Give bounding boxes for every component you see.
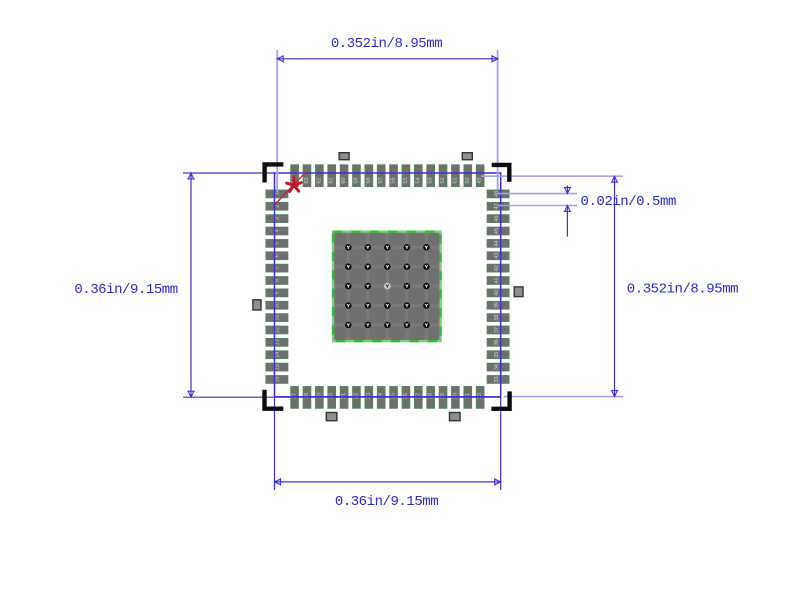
svg-text:24: 24 — [378, 393, 384, 399]
pad 19 (bottom) — [316, 387, 324, 409]
pad 3 (left) — [266, 215, 288, 223]
via 2,5 — [423, 263, 430, 270]
svg-text:0.352in/8.95mm: 0.352in/8.95mm — [331, 36, 442, 52]
package body outline (9.15mm square) — [275, 173, 501, 397]
svg-text:52: 52 — [440, 177, 446, 183]
orientation mark top-left — [339, 153, 349, 160]
left dimension extension line bottom — [183, 396, 501, 398]
svg-text:55: 55 — [403, 177, 409, 183]
svg-text:58: 58 — [366, 177, 372, 183]
pitch dimension extension line upper — [498, 193, 578, 195]
svg-text:31: 31 — [465, 393, 471, 399]
svg-text:61: 61 — [329, 177, 335, 183]
svg-text:0.36in/9.15mm: 0.36in/9.15mm — [335, 494, 438, 510]
via 3,3 — [384, 283, 391, 290]
bottom dimension line — [275, 478, 501, 485]
pad 54 (top) — [415, 165, 423, 187]
pad 34 (right) — [487, 363, 509, 371]
right dimension extension line top — [481, 175, 623, 177]
svg-text:6: 6 — [275, 254, 281, 257]
svg-text:62: 62 — [316, 177, 322, 183]
pad 1 (left) — [266, 190, 288, 198]
pad 31 (bottom) — [464, 387, 472, 409]
svg-text:3: 3 — [275, 217, 281, 220]
pad 46 (right) — [487, 215, 509, 223]
svg-text:19: 19 — [316, 393, 322, 399]
via 4,1 — [345, 302, 352, 309]
right dimension line — [611, 176, 618, 396]
pad 16 (left) — [266, 376, 288, 384]
pad 13 (left) — [266, 339, 288, 347]
svg-text:51: 51 — [452, 177, 458, 183]
pad 7 (left) — [266, 264, 288, 272]
pad 35 (right) — [487, 351, 509, 359]
svg-text:49: 49 — [477, 177, 483, 183]
pad 18 (bottom) — [303, 387, 311, 409]
svg-text:41: 41 — [494, 277, 500, 283]
svg-text:34: 34 — [494, 364, 500, 370]
silkscreen corner bracket bottom-left — [265, 390, 284, 409]
svg-text:5: 5 — [275, 242, 281, 245]
pad 21 (bottom) — [340, 387, 348, 409]
pad 64 (top) — [291, 165, 299, 187]
pad 59 (top) — [353, 165, 361, 187]
svg-text:22: 22 — [353, 393, 359, 399]
pad 28 (bottom) — [427, 387, 435, 409]
pad 23 (bottom) — [365, 387, 373, 409]
svg-text:53: 53 — [428, 177, 434, 183]
pad 5 (left) — [266, 240, 288, 248]
svg-text:0.36in/9.15mm: 0.36in/9.15mm — [74, 282, 177, 298]
pad 27 (bottom) — [415, 387, 423, 409]
pad 17 (bottom) — [291, 387, 299, 409]
svg-text:56: 56 — [391, 177, 397, 183]
svg-text:29: 29 — [440, 393, 446, 399]
pad 11 (left) — [266, 314, 288, 322]
svg-text:0.02in/0.5mm: 0.02in/0.5mm — [581, 194, 676, 210]
pad 39 (right) — [487, 301, 509, 309]
svg-text:46: 46 — [494, 216, 500, 222]
orientation mark top-right — [462, 153, 472, 160]
svg-text:15: 15 — [275, 364, 281, 370]
pitch dimension arrows — [564, 186, 571, 237]
svg-text:32: 32 — [477, 393, 483, 399]
pitch dimension extension line lower — [498, 205, 578, 207]
svg-text:37: 37 — [494, 327, 500, 333]
via 5,4 — [404, 322, 411, 329]
bottom dimension extension line right — [500, 397, 502, 490]
svg-text:20: 20 — [329, 393, 335, 399]
via 2,4 — [404, 263, 411, 270]
pad 30 (bottom) — [452, 387, 460, 409]
pad 48 (right) — [487, 190, 509, 198]
via 5,3 — [384, 322, 391, 329]
right dimension extension line bottom — [504, 396, 623, 398]
pin 1 leader line — [275, 172, 306, 205]
pad 56 (top) — [390, 165, 398, 187]
pad 63 (top) — [303, 165, 311, 187]
thermal pad paste grid — [334, 233, 439, 340]
via 3,2 — [365, 283, 372, 290]
pad 55 (top) — [402, 165, 410, 187]
svg-text:26: 26 — [403, 393, 409, 399]
svg-text:54: 54 — [415, 177, 421, 183]
svg-text:7: 7 — [275, 267, 281, 270]
svg-text:42: 42 — [494, 265, 500, 271]
pad 38 (right) — [487, 314, 509, 322]
pad 61 (top) — [328, 165, 336, 187]
orientation mark right — [514, 287, 523, 297]
via 1,1 — [345, 244, 352, 251]
svg-text:9: 9 — [275, 291, 281, 294]
pad 58 (top) — [365, 165, 373, 187]
via 4,2 — [365, 302, 372, 309]
pad 43 (right) — [487, 252, 509, 260]
svg-text:12: 12 — [275, 327, 281, 333]
svg-text:25: 25 — [391, 393, 397, 399]
pad 26 (bottom) — [402, 387, 410, 409]
via 5,5 — [423, 322, 430, 329]
svg-text:30: 30 — [452, 393, 458, 399]
svg-text:1: 1 — [275, 192, 281, 195]
svg-text:10: 10 — [275, 302, 281, 308]
bottom dimension extension line left — [274, 397, 276, 490]
left dimension extension line top — [183, 172, 276, 174]
svg-text:4: 4 — [275, 229, 281, 232]
via 3,4 — [404, 283, 411, 290]
orientation mark bottom-left — [326, 413, 337, 421]
thermal pad EP base — [333, 232, 441, 342]
pad 32 (bottom) — [476, 387, 484, 409]
via 3,1 — [345, 283, 352, 290]
via 2,1 — [345, 263, 352, 270]
svg-text:2: 2 — [275, 205, 281, 208]
pad 50 (top) — [464, 165, 472, 187]
pad 42 (right) — [487, 264, 509, 272]
pad 29 (bottom) — [439, 387, 447, 409]
via 1,3 — [384, 244, 391, 251]
pad 24 (bottom) — [377, 387, 385, 409]
silkscreen corner bracket top-right — [492, 165, 510, 182]
svg-text:45: 45 — [494, 228, 500, 234]
pad 4 (left) — [266, 227, 288, 235]
svg-text:50: 50 — [465, 177, 471, 183]
pad 14 (left) — [266, 351, 288, 359]
svg-text:35: 35 — [494, 352, 500, 358]
pad 49 (top) — [476, 165, 484, 187]
via 2,3 — [384, 263, 391, 270]
pad 15 (left) — [266, 363, 288, 371]
orientation mark bottom-right — [450, 413, 461, 421]
svg-text:40: 40 — [494, 290, 500, 296]
svg-text:33: 33 — [494, 376, 500, 382]
orientation mark left — [253, 300, 261, 310]
svg-text:43: 43 — [494, 253, 500, 259]
svg-text:57: 57 — [378, 177, 384, 183]
pad 25 (bottom) — [390, 387, 398, 409]
top dimension extension line left — [276, 50, 278, 193]
pad 33 (right) — [487, 376, 509, 384]
svg-text:27: 27 — [415, 393, 421, 399]
svg-text:36: 36 — [494, 339, 500, 345]
via 2,2 — [365, 263, 372, 270]
svg-text:18: 18 — [304, 393, 310, 399]
via 1,4 — [404, 244, 411, 251]
pad 20 (bottom) — [328, 387, 336, 409]
svg-text:39: 39 — [494, 302, 500, 308]
svg-text:16: 16 — [275, 376, 281, 382]
via 1,5 — [423, 244, 430, 251]
pad 8 (left) — [266, 277, 288, 285]
pad 44 (right) — [487, 240, 509, 248]
via 1,2 — [365, 244, 372, 251]
svg-text:8: 8 — [275, 279, 281, 282]
top dimension extension line right — [497, 50, 499, 190]
pad 60 (top) — [340, 165, 348, 187]
pad 36 (right) — [487, 339, 509, 347]
via 5,1 — [345, 322, 352, 329]
pad 47 (right) — [487, 202, 509, 210]
svg-text:13: 13 — [275, 339, 281, 345]
svg-text:17: 17 — [292, 393, 298, 399]
pad 53 (top) — [427, 165, 435, 187]
thermal pad border (solder paste outline) — [333, 232, 441, 342]
svg-text:21: 21 — [341, 393, 347, 399]
pad 62 (top) — [316, 165, 324, 187]
pad 41 (right) — [487, 277, 509, 285]
svg-text:59: 59 — [353, 177, 359, 183]
pad 45 (right) — [487, 227, 509, 235]
silkscreen corner bracket bottom-right — [491, 391, 509, 408]
silkscreen corner bracket top-left — [265, 164, 284, 182]
svg-text:0.352in/8.95mm: 0.352in/8.95mm — [627, 282, 738, 298]
via 4,5 — [423, 302, 430, 309]
pad 12 (left) — [266, 326, 288, 334]
svg-text:14: 14 — [275, 352, 281, 358]
via 4,3 — [384, 302, 391, 309]
svg-text:38: 38 — [494, 315, 500, 321]
pad 10 (left) — [266, 301, 288, 309]
pad 51 (top) — [452, 165, 460, 187]
pad 40 (right) — [487, 289, 509, 297]
top dimension line — [277, 55, 498, 62]
svg-text:44: 44 — [494, 240, 500, 246]
pad 6 (left) — [266, 252, 288, 260]
pad 57 (top) — [377, 165, 385, 187]
pad 9 (left) — [266, 289, 288, 297]
pad 37 (right) — [487, 326, 509, 334]
pin 1 marker X — [287, 178, 302, 192]
svg-text:28: 28 — [428, 393, 434, 399]
pad 2 (left) — [266, 202, 288, 210]
via 5,2 — [365, 322, 372, 329]
svg-text:23: 23 — [366, 393, 372, 399]
pad 52 (top) — [439, 165, 447, 187]
svg-text:63: 63 — [304, 177, 310, 183]
pad 22 (bottom) — [353, 387, 361, 409]
via 3,5 — [423, 283, 430, 290]
svg-text:11: 11 — [275, 315, 281, 321]
via 4,4 — [404, 302, 411, 309]
svg-text:60: 60 — [341, 177, 347, 183]
left dimension line — [187, 173, 194, 397]
